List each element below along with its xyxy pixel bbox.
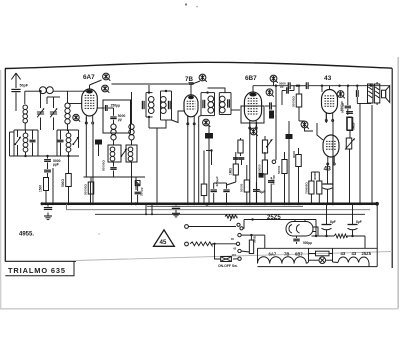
circled pin 6B7 diode <box>266 89 274 97</box>
resistor 50000 right <box>277 152 287 205</box>
svg-text:TRIALMO 635: TRIALMO 635 <box>8 266 66 275</box>
svg-text:43: 43 <box>352 251 357 256</box>
title box TRIALMO 635 <box>5 262 74 276</box>
circled pin F <box>301 121 309 129</box>
capacitor speaker shunt <box>340 86 372 111</box>
svg-text:6B7: 6B7 <box>295 252 303 257</box>
svg-text:50000: 50000 <box>240 183 244 192</box>
wire 6B7 top cap <box>252 86 254 93</box>
switch AVC <box>266 139 273 148</box>
circled pin 6B7 top <box>270 75 278 86</box>
wire 6A7 connections <box>68 80 102 205</box>
label heater 43b <box>352 251 357 256</box>
circled pin M3 <box>250 128 258 136</box>
ground symbol left <box>44 213 52 220</box>
wire lower-left join <box>10 155 80 157</box>
svg-text:43: 43 <box>324 75 332 82</box>
wire 43 lower conn <box>317 123 334 205</box>
oscillator box <box>103 100 131 133</box>
svg-text:300Ω: 300Ω <box>253 235 257 243</box>
wire 6A7 plate lead <box>112 83 189 85</box>
coil box oscillator <box>108 145 137 162</box>
svg-text:8µF: 8µF <box>356 220 362 224</box>
circled pin 7B <box>199 74 207 82</box>
resistor volume pot <box>201 170 208 206</box>
capacitor 250pF mid <box>134 187 143 205</box>
wire antenna down <box>15 93 17 112</box>
svg-text:7B: 7B <box>284 252 289 257</box>
capacitor 5000 AVC <box>268 175 276 204</box>
capacitor input 43 dark <box>286 121 293 205</box>
resistor dark 6B7 <box>269 111 274 119</box>
wire 7B legs <box>187 116 196 205</box>
svg-text:1500: 1500 <box>39 185 43 192</box>
resistor 500 ohm <box>61 156 71 204</box>
wire T2 to 6B7 <box>231 109 240 111</box>
label 7B <box>185 76 193 83</box>
circled pin 1 <box>73 114 80 121</box>
zigzag resistor PU <box>190 242 236 246</box>
label 6B7 <box>245 75 257 82</box>
inductor antenna choke <box>39 87 53 94</box>
electrolytic 8uF b <box>348 203 362 238</box>
svg-text:µµF: µµF <box>53 162 59 166</box>
heater winding right <box>333 257 369 263</box>
IF transformer T2 secondary <box>219 93 231 115</box>
wire selector top <box>241 234 265 248</box>
capacitor 250pF <box>97 103 120 111</box>
resistor 50000 screen <box>292 85 302 122</box>
wire under-bus B <box>95 204 365 216</box>
band group 1 <box>14 130 38 156</box>
electrolytic 8uF a <box>322 203 336 238</box>
wire speaker column <box>359 104 361 206</box>
resistor 750000 <box>305 172 315 204</box>
resistor 3M tone <box>347 118 355 139</box>
triangle 45 <box>154 230 175 246</box>
tube 43 lower <box>323 135 339 165</box>
wire left extra <box>52 168 54 205</box>
svg-text:45: 45 <box>160 239 167 246</box>
label 6A7 <box>83 74 95 81</box>
resistor upper a <box>238 138 243 156</box>
wire bus feeds <box>0 0 1 1</box>
inductor L1 <box>23 105 28 130</box>
wire left stack <box>41 203 70 205</box>
svg-text:50000Ω: 50000Ω <box>84 184 88 195</box>
svg-text:115: 115 <box>232 253 237 257</box>
wire 7B top <box>188 81 200 95</box>
svg-text:40000: 40000 <box>313 172 317 180</box>
wire IF2 column a <box>198 116 202 205</box>
variable capacitor C-tune-2 <box>47 97 60 130</box>
svg-text:500Ω: 500Ω <box>61 179 65 187</box>
svg-text:50000Ω: 50000Ω <box>292 96 296 107</box>
svg-text:43: 43 <box>341 251 346 256</box>
resistor 500k 43 <box>347 117 355 130</box>
svg-text:5000µµ: 5000µµ <box>340 101 344 111</box>
circled pin 43 <box>337 91 345 99</box>
IF transformer T1 secondary <box>160 90 171 120</box>
speaker <box>382 86 390 103</box>
svg-text:42: 42 <box>233 246 237 250</box>
capacitor 5000pF left-a <box>44 156 61 166</box>
label ON-OFF Sw <box>218 264 238 268</box>
trimmer capacitor group1 <box>30 130 36 156</box>
svg-text:ON-OFF Sw.: ON-OFF Sw. <box>218 264 238 268</box>
capacitor tone <box>346 112 353 114</box>
label heater 6B7 <box>295 252 303 257</box>
resistor mains dropper <box>249 235 256 253</box>
capacitor 5000 coupling a <box>279 81 290 89</box>
ground symbol mid <box>172 210 180 217</box>
rectifier 25Z5 <box>286 220 318 237</box>
circled pin 6A7 anode <box>102 85 110 93</box>
inductor L4 <box>66 130 71 156</box>
capacitor 5000 43-grid <box>341 86 352 115</box>
tube 6B7 <box>244 92 261 129</box>
heater box top <box>258 248 378 263</box>
terminal circle AVC <box>272 160 276 164</box>
svg-text:6B7: 6B7 <box>245 75 257 82</box>
resistor 50000 ohm osc <box>84 177 94 195</box>
svg-text:40: 40 <box>231 237 235 241</box>
terminal PU1 <box>185 225 236 229</box>
svg-text:250000: 250000 <box>258 164 262 174</box>
resistor upper b <box>262 136 267 160</box>
heater winding left <box>258 257 307 264</box>
tube 6A7 <box>82 89 98 124</box>
wire screen to F <box>299 121 313 131</box>
svg-text:7B: 7B <box>185 76 193 83</box>
resistor left bias <box>39 177 49 204</box>
ground capacitor mid <box>172 203 180 212</box>
circled pin M2 <box>203 119 211 127</box>
svg-text:50pF: 50pF <box>20 84 29 88</box>
wire antenna top rail <box>16 88 88 104</box>
svg-text:470µµF: 470µµF <box>215 176 219 186</box>
svg-text:50000Ω: 50000Ω <box>102 160 106 171</box>
capacitor 5000pF left-b <box>44 163 51 178</box>
variable capacitor C-tune-1 <box>37 90 44 130</box>
inductor osc tank <box>129 92 134 145</box>
grid box 6B7 <box>241 106 264 123</box>
resistor small mid <box>135 181 140 192</box>
tube 43 upper <box>322 90 338 122</box>
svg-text:750000Ω: 750000Ω <box>305 182 309 194</box>
label 43 upper <box>324 75 332 82</box>
capacitor 50pF antenna series <box>11 84 28 92</box>
svg-text:µµ: µµ <box>118 117 122 121</box>
terminal PU2 <box>185 242 189 246</box>
wire transformer return <box>371 105 373 205</box>
capacitor 470pF a <box>211 176 219 204</box>
label 4955 <box>19 232 34 238</box>
wire power right <box>365 204 377 267</box>
pilot lamp <box>307 248 333 263</box>
band group 2 <box>57 130 79 156</box>
label heater 7B <box>284 252 289 257</box>
capacitor 6B7 right <box>265 102 276 109</box>
capacitor dark AVC <box>259 173 264 178</box>
inductor osc feedback <box>111 124 116 145</box>
resistor 50000 centre <box>240 165 250 205</box>
resistor 40000 lower <box>311 172 322 204</box>
wire left return <box>10 132 15 156</box>
svg-text:25Z5: 25Z5 <box>362 251 372 256</box>
capacitor left column <box>282 86 294 105</box>
output transformer <box>368 82 380 105</box>
electrolytic cathode 43 <box>323 163 333 205</box>
svg-text:8µF: 8µF <box>330 220 336 224</box>
svg-text:5000µµ: 5000µµ <box>272 175 276 185</box>
ground capacitor left <box>44 204 52 210</box>
IF transformer T2 primary <box>201 91 215 115</box>
trimmer capacitor group2 <box>58 130 64 156</box>
inductor osc sub left <box>110 147 115 161</box>
terminal pair mid <box>237 220 244 230</box>
wire B+ rail <box>253 85 390 87</box>
capacitor pair small <box>233 158 244 165</box>
label 50000 osc <box>102 160 106 171</box>
capacitor 7B screen dark <box>205 126 213 205</box>
svg-text:µµ: µµ <box>280 85 284 89</box>
resistor 300 right <box>292 148 301 205</box>
svg-text:6A7: 6A7 <box>269 252 277 257</box>
wire mid column <box>130 162 136 205</box>
svg-text:250µµ: 250µµ <box>140 187 144 196</box>
svg-text:1MΩ: 1MΩ <box>229 168 233 175</box>
heater box bottom <box>258 263 378 267</box>
svg-text:250µµ: 250µµ <box>111 103 121 107</box>
inductor osc sub right <box>128 147 133 161</box>
zigzag resistor volume <box>225 215 237 221</box>
inductor L3 <box>23 130 28 156</box>
label heater 43a <box>341 251 346 256</box>
svg-text:300Ω: 300Ω <box>292 150 296 158</box>
choke filter <box>312 234 366 238</box>
tube 7B <box>184 95 198 125</box>
svg-text:50000: 50000 <box>277 165 281 174</box>
svg-text:25Z5: 25Z5 <box>267 215 281 221</box>
wire T1 bottom <box>149 120 166 205</box>
svg-text:6A7: 6A7 <box>83 74 95 81</box>
wire 25Z5 top <box>244 218 317 237</box>
wire T1 to 7B grid <box>172 111 185 123</box>
inductor L2 oscillator <box>65 91 70 131</box>
capacitor 5000pF cath <box>108 108 125 121</box>
circled pin 6A7 grid <box>103 73 111 81</box>
capacitor 470pF b <box>214 183 230 205</box>
mains selector circles <box>231 233 242 260</box>
resistor line-dropper <box>221 257 232 262</box>
label heater 6A7 <box>269 252 277 257</box>
antenna <box>11 73 20 88</box>
wire osc bottom <box>84 177 146 205</box>
wire 6B7 anode rail <box>275 86 277 160</box>
svg-text:500µµ: 500µµ <box>303 241 312 245</box>
wire under-bus C <box>147 205 303 207</box>
wire 6B7 legs <box>249 122 258 205</box>
wire 43 upper conn <box>322 86 334 206</box>
capacitor 4uF <box>253 182 265 204</box>
svg-text:3MΩ: 3MΩ <box>352 123 356 130</box>
switch S2 <box>120 149 127 158</box>
label 43 lower <box>324 166 332 173</box>
capacitor osc pad <box>110 162 116 177</box>
resistor 250000 <box>258 152 268 205</box>
label 25Z5 <box>267 215 281 221</box>
variable resistor tone <box>345 138 355 205</box>
capacitor 500pF rect <box>293 236 312 245</box>
wire PU to switch <box>215 244 221 259</box>
wire IF2 column b <box>204 149 213 170</box>
wire selector taps <box>233 251 249 259</box>
wire T2 top link <box>208 88 226 93</box>
IF transformer T1 primary <box>142 85 154 128</box>
capacitor osc dark <box>95 140 102 157</box>
svg-text:4955.: 4955. <box>19 232 34 238</box>
ground bus <box>41 202 379 206</box>
wire under-bus A <box>67 204 371 210</box>
capacitor 5000 coupling b <box>306 82 308 89</box>
wire osc grid loop <box>113 120 115 124</box>
resistor 1M <box>227 152 239 185</box>
label heater 25Z5 <box>362 251 372 256</box>
